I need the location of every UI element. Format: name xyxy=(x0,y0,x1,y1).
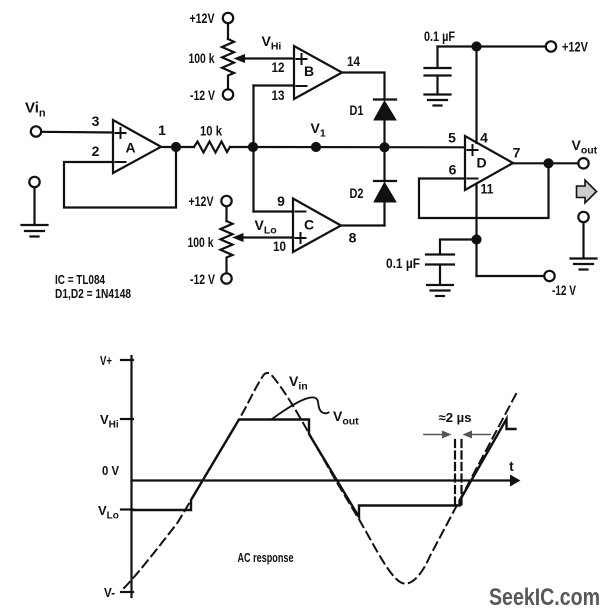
svg-text:+12V: +12V xyxy=(562,39,589,55)
terminal -12V xyxy=(544,271,554,281)
arrow right (2us) xyxy=(463,431,491,439)
svg-text:VLo: VLo xyxy=(255,217,277,237)
svg-text:Vin: Vin xyxy=(25,100,46,120)
wire vertical branch pin13-pin9 xyxy=(252,86,254,212)
svg-text:VHi: VHi xyxy=(100,412,119,431)
svg-text:0.1 µF: 0.1 µF xyxy=(424,28,455,44)
svg-text:10 k: 10 k xyxy=(200,123,222,139)
svg-text:D: D xyxy=(476,155,486,171)
svg-text:0 V: 0 V xyxy=(102,463,119,478)
wiper arrow P1 / wire VHi to B pin12 xyxy=(234,54,295,63)
svg-text:D1,D2 = 1N4148: D1,D2 = 1N4148 xyxy=(55,286,131,301)
svg-text:0.1 µF: 0.1 µF xyxy=(386,255,420,271)
svg-text:A: A xyxy=(125,140,135,156)
dashed marker line 1 xyxy=(454,440,456,507)
graph time axis xyxy=(132,479,513,481)
node +12V junction xyxy=(473,43,481,51)
node V1 xyxy=(312,143,320,151)
ground (C1) xyxy=(425,95,451,106)
tick VHi xyxy=(121,418,133,420)
graph vertical axis xyxy=(130,356,132,597)
svg-text:IC = TL084: IC = TL084 xyxy=(55,272,106,287)
ground (C2) xyxy=(427,285,453,296)
svg-text:12: 12 xyxy=(272,59,285,75)
terminal Vout xyxy=(578,158,588,168)
svg-text:14: 14 xyxy=(347,53,360,69)
waveform Vin dashed sine xyxy=(124,373,516,588)
op-amp U1A xyxy=(113,120,161,173)
wire junction to D2 xyxy=(383,147,385,181)
svg-text:8: 8 xyxy=(349,230,357,246)
svg-text:V-: V- xyxy=(104,585,115,600)
svg-text:SeekIC.com: SeekIC.com xyxy=(489,584,600,611)
svg-text:6: 6 xyxy=(449,162,457,178)
ground terminal (right) xyxy=(571,212,597,270)
terminal +12V xyxy=(546,41,556,51)
terminal Vin xyxy=(31,126,41,136)
svg-text:-12 V: -12 V xyxy=(190,271,215,287)
op-amp U1B xyxy=(294,46,342,99)
wire D out to Vout xyxy=(513,162,578,164)
svg-text:3: 3 xyxy=(92,113,100,129)
arrow left (2us) xyxy=(424,431,452,439)
tick V+ xyxy=(121,359,133,361)
svg-text:AC response: AC response xyxy=(238,550,294,565)
dashed marker line 2 xyxy=(460,440,462,507)
svg-text:C: C xyxy=(304,217,314,233)
capacitor C2 0.1uF xyxy=(426,255,454,285)
svg-text:-12 V: -12 V xyxy=(552,282,576,298)
node -12V junction xyxy=(473,236,481,244)
op-amp U1C xyxy=(293,199,341,253)
svg-text:5: 5 xyxy=(448,130,456,146)
svg-text:-12 V: -12 V xyxy=(190,87,215,103)
wire Vin to A+ xyxy=(42,131,114,134)
wire branch to B pin13 xyxy=(254,84,295,86)
svg-text:1: 1 xyxy=(158,122,166,138)
ground terminal (below Vin) xyxy=(22,177,48,237)
svg-text:B: B xyxy=(304,63,314,79)
wire feedback D (output to pin 6) xyxy=(419,163,549,218)
svg-text:≈2 µs: ≈2 µs xyxy=(439,410,472,425)
potentiometer P2 100 k xyxy=(221,196,233,284)
svg-text:Vout: Vout xyxy=(572,137,598,157)
svg-text:Vout: Vout xyxy=(333,408,359,428)
wire rail to D+ xyxy=(230,146,465,149)
svg-text:100 k: 100 k xyxy=(189,50,215,66)
svg-text:D2: D2 xyxy=(350,185,364,201)
node D output xyxy=(545,159,553,167)
wire branch to C pin9 xyxy=(254,210,294,212)
wire pin 4 to +12V rail xyxy=(475,47,477,144)
wire C out to D2 xyxy=(341,224,385,226)
diode D1 xyxy=(374,100,396,148)
svg-text:V1: V1 xyxy=(311,120,326,140)
svg-text:D1: D1 xyxy=(350,102,364,118)
resistor R1 10 k xyxy=(194,142,230,153)
svg-text:100 k: 100 k xyxy=(188,234,214,250)
wire junction to C2 xyxy=(440,240,477,255)
capacitor C1 0.1uF xyxy=(425,47,451,95)
svg-text:t: t xyxy=(509,458,514,474)
svg-text:11: 11 xyxy=(481,181,494,197)
time axis arrowhead xyxy=(510,475,521,487)
svg-text:+12V: +12V xyxy=(189,193,214,209)
node diode rail junction xyxy=(381,143,389,151)
svg-text:Vin: Vin xyxy=(289,373,308,393)
diode D2 xyxy=(374,181,396,226)
wire feedback A (output to pin 2) xyxy=(64,147,176,208)
op-amp U1D xyxy=(465,136,513,190)
wire A out to resistor xyxy=(161,146,194,148)
svg-text:VHi: VHi xyxy=(262,33,282,53)
leader Vout label xyxy=(272,397,329,419)
svg-text:10: 10 xyxy=(273,238,286,254)
svg-text:9: 9 xyxy=(277,193,285,209)
wire -12V rail xyxy=(477,275,545,277)
wire pin 11 down xyxy=(475,184,477,276)
svg-text:V+: V+ xyxy=(100,353,112,368)
node A output (pin 1) xyxy=(172,143,180,151)
svg-text:13: 13 xyxy=(272,87,285,103)
svg-text:+12V: +12V xyxy=(190,10,215,26)
svg-text:VLo: VLo xyxy=(98,503,119,522)
wiper arrow P2 / wire VLo to C pin10 xyxy=(232,233,293,242)
waveform Vout solid trapezoid xyxy=(132,419,516,517)
tick V- xyxy=(121,591,133,593)
svg-text:7: 7 xyxy=(513,145,521,161)
wire B out to D1 xyxy=(342,73,385,100)
tick VLo xyxy=(121,508,133,510)
wire +12V rail xyxy=(438,45,546,47)
arrow icon xyxy=(577,180,597,203)
svg-text:2: 2 xyxy=(92,143,100,159)
node junction rail/branch xyxy=(249,143,257,151)
potentiometer P1 100 k xyxy=(222,13,234,100)
svg-text:4: 4 xyxy=(480,130,488,146)
